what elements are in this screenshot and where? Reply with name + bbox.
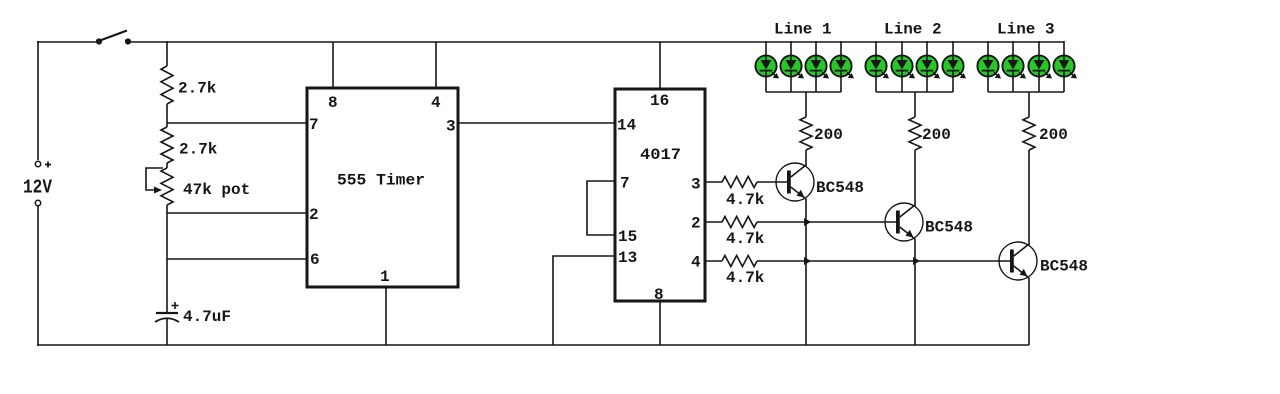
junction tick at Q2 emitter crossing (pin4 wire)	[913, 257, 920, 265]
LED line3 D3	[1028, 41, 1052, 92]
wire R7 to Q2 collector	[914, 150, 916, 206]
wire Q3 emitter to bottom rail	[1028, 278, 1030, 345]
svg-text:4.7uF: 4.7uF	[183, 308, 231, 326]
wire pin3 to R3	[705, 181, 722, 183]
svg-text:13: 13	[618, 249, 637, 267]
wire top rail	[127, 41, 1064, 43]
wire LED bank2 to R7	[914, 92, 916, 117]
op-amp-box U1 555 Timer	[307, 88, 458, 287]
svg-text:BC548: BC548	[925, 219, 973, 237]
svg-text:4: 4	[691, 254, 701, 272]
transistor Q2 BC548	[885, 203, 923, 241]
wire pin7 to divider	[167, 122, 307, 124]
junction tick at Q1 emitter crossing (pin4 wire)	[804, 257, 811, 265]
wire LED bank2 cathode bus	[876, 91, 953, 93]
wire pin16 to top rail	[659, 42, 661, 89]
wire R5 to Q3 base	[757, 260, 1011, 262]
transistor Q3 BC548	[999, 242, 1037, 280]
wire pin7 to pin15 loop	[587, 181, 615, 235]
LED line2 D2	[891, 41, 915, 92]
op-amp-box U2 4017	[615, 89, 705, 301]
LED line1 D2	[780, 41, 804, 92]
LED line2 D1	[865, 41, 889, 92]
wire pot to capacitor	[166, 205, 168, 313]
svg-text:7: 7	[620, 175, 630, 193]
wire Q2 emitter to bottom rail	[914, 239, 916, 345]
transistor Q1 BC548	[776, 163, 814, 201]
svg-text:200: 200	[922, 126, 951, 144]
resistor R5 4.7k	[722, 256, 757, 267]
wire capacitor to bottom rail	[166, 319, 168, 345]
wire R8 to Q3 collector	[1028, 150, 1030, 245]
resistor R8 200	[1023, 117, 1035, 150]
svg-text:4.7k: 4.7k	[726, 230, 765, 248]
svg-text:8: 8	[654, 286, 664, 304]
wire pin3 to pin14	[458, 122, 615, 124]
svg-text:Line 3: Line 3	[997, 21, 1055, 39]
resistor R6 200	[800, 117, 812, 150]
LED line1 D1	[755, 41, 779, 92]
resistor R1 2.7k	[161, 66, 173, 104]
LED line1 D3	[805, 41, 829, 92]
svg-text:Line 2: Line 2	[884, 21, 942, 39]
LED line3 D1	[977, 41, 1001, 92]
svg-text:4017: 4017	[640, 146, 681, 164]
svg-text:2: 2	[691, 215, 701, 233]
wire LED bank3 to R8	[1028, 92, 1030, 117]
LED line1 D4	[830, 41, 854, 92]
wire Q1 emitter to bottom rail	[805, 199, 807, 345]
svg-text:15: 15	[618, 228, 637, 246]
resistor R7 200	[909, 117, 921, 150]
wire R6 to Q1 collector	[805, 150, 807, 166]
svg-text:47k pot: 47k pot	[183, 181, 250, 199]
LED line2 D4	[942, 41, 966, 92]
svg-text:4.7k: 4.7k	[726, 269, 765, 287]
wire R1 to R2 (junction pin7 node)	[166, 104, 168, 127]
wire LED bank3 cathode bus	[988, 91, 1064, 93]
wire R3 to Q1 base	[757, 181, 788, 183]
wire top rail left segment	[37, 41, 100, 43]
svg-text:8: 8	[328, 94, 338, 112]
battery 12V terminals	[35, 161, 51, 205]
LED line2 D3	[916, 41, 940, 92]
svg-text:BC548: BC548	[1040, 258, 1088, 276]
wire pin4 to R5	[705, 260, 722, 262]
wire pin6 to divider	[167, 258, 307, 260]
wire R2 to pot	[166, 163, 168, 168]
svg-text:BC548: BC548	[816, 179, 864, 197]
wire LED bank1 cathode bus	[766, 91, 841, 93]
svg-text:7: 7	[309, 116, 319, 134]
svg-text:200: 200	[814, 126, 843, 144]
svg-text:4.7k: 4.7k	[726, 191, 765, 209]
svg-text:2.7k: 2.7k	[179, 141, 218, 159]
resistor R3 4.7k	[722, 177, 757, 188]
LED line3 D4	[1053, 41, 1077, 92]
wire LED bank1 to R6	[805, 92, 807, 117]
potentiometer 47k	[146, 168, 173, 205]
wire pin2 to divider	[167, 212, 307, 214]
svg-text:3: 3	[691, 176, 701, 194]
wire pin8 to bottom rail	[659, 301, 661, 345]
svg-text:555 Timer: 555 Timer	[337, 172, 425, 190]
svg-text:200: 200	[1039, 126, 1068, 144]
wire top rail to R1	[166, 41, 168, 66]
wire left vertical to + terminal	[37, 41, 39, 160]
capacitor C1 4.7uF	[155, 302, 179, 322]
svg-text:6: 6	[310, 251, 320, 269]
wire left vertical from - terminal	[37, 206, 39, 346]
wire pin2 to R4	[705, 221, 722, 223]
svg-text:1: 1	[380, 268, 390, 286]
wire R4 to Q2 base	[757, 221, 897, 223]
wire bottom rail	[37, 344, 1029, 346]
wire pin1 to bottom rail	[385, 287, 387, 345]
svg-text:2: 2	[309, 206, 319, 224]
wire pin13 to bottom rail	[553, 256, 615, 345]
wire pin4 to top rail	[435, 42, 437, 88]
svg-text:Line 1: Line 1	[774, 21, 832, 39]
junction tick at Q1 emitter crossing	[804, 218, 811, 226]
svg-text:4: 4	[431, 94, 441, 112]
svg-text:16: 16	[650, 92, 669, 110]
LED line3 D2	[1002, 41, 1026, 92]
svg-text:12V: 12V	[23, 177, 52, 199]
resistor R4 4.7k	[722, 217, 757, 228]
svg-text:14: 14	[617, 117, 637, 135]
svg-text:2.7k: 2.7k	[178, 80, 217, 98]
svg-text:3: 3	[446, 118, 456, 136]
switch S1	[96, 31, 131, 45]
wire pin8 to top rail	[332, 42, 334, 88]
resistor R2 2.7k	[161, 127, 173, 163]
